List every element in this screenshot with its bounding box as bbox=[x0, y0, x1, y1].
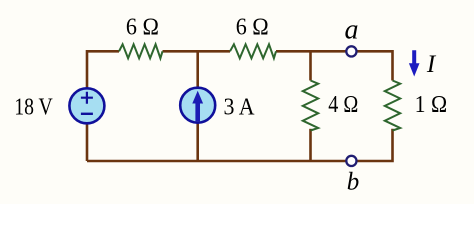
current I arrow (down, right side) bbox=[409, 50, 420, 76]
resistor R3 4-ohm (vertical zigzag) bbox=[303, 81, 318, 131]
wire top rail between resistors bbox=[163, 50, 231, 53]
resistor R4 1-ohm (vertical zigzag) bbox=[385, 81, 400, 131]
wire 4-ohm branch bottom lead bbox=[309, 129, 312, 162]
current source I1 circle bbox=[180, 88, 215, 123]
svg-text:4 Ω: 4 Ω bbox=[328, 92, 358, 118]
svg-text:a: a bbox=[345, 14, 359, 45]
wire current source bottom lead bbox=[196, 122, 199, 162]
wire top rail right of R2 through node a to top-right corner bbox=[276, 51, 393, 80]
svg-text:6 Ω: 6 Ω bbox=[126, 14, 159, 40]
node b terminal circle bbox=[346, 156, 356, 166]
svg-text:18 V: 18 V bbox=[14, 94, 53, 120]
resistor R1 6-ohm (top left zigzag) bbox=[119, 44, 163, 58]
resistor R2 6-ohm (top right zigzag) bbox=[230, 44, 276, 58]
voltage source minus sign bbox=[81, 113, 93, 115]
svg-text:1 Ω: 1 Ω bbox=[415, 92, 448, 118]
svg-text:b: b bbox=[347, 168, 360, 195]
node a terminal circle bbox=[346, 46, 356, 56]
wire 1-ohm bottom lead and bottom-right corner bbox=[87, 129, 393, 161]
voltage source V1 circle bbox=[69, 88, 104, 123]
svg-text:6 Ω: 6 Ω bbox=[236, 14, 269, 40]
wire current source top lead bbox=[196, 50, 199, 88]
wire 4-ohm branch top lead bbox=[309, 50, 312, 81]
svg-text:3 A: 3 A bbox=[224, 94, 256, 120]
wire top-left corner and top rail bbox=[87, 51, 119, 88]
wire voltage source bottom lead bbox=[86, 123, 89, 161]
current source arrow (up) bbox=[192, 91, 203, 122]
voltage source plus sign bbox=[81, 92, 93, 104]
